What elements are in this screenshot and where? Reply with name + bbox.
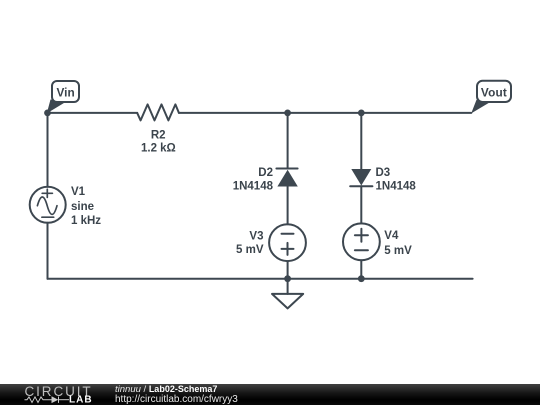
svg-text:http://circuitlab.com/cfwryy3: http://circuitlab.com/cfwryy3 (115, 394, 238, 405)
svg-text:D2: D2 (258, 167, 273, 179)
svg-text:1N4148: 1N4148 (376, 180, 417, 192)
svg-text:V4: V4 (384, 230, 399, 242)
svg-text:sine: sine (71, 201, 94, 213)
svg-text:V1: V1 (71, 186, 86, 198)
svg-text:LAB: LAB (69, 395, 93, 405)
svg-text:Vin: Vin (57, 86, 75, 100)
svg-text:1N4148: 1N4148 (233, 180, 274, 192)
svg-text:5 mV: 5 mV (236, 244, 264, 256)
svg-text:5 mV: 5 mV (384, 245, 412, 257)
svg-text:Vout: Vout (481, 86, 507, 100)
svg-text:V3: V3 (249, 231, 263, 243)
svg-text:1 kHz: 1 kHz (71, 215, 101, 227)
svg-text:R2: R2 (151, 130, 166, 142)
svg-text:D3: D3 (376, 167, 391, 179)
svg-text:1.2 kΩ: 1.2 kΩ (141, 143, 176, 155)
